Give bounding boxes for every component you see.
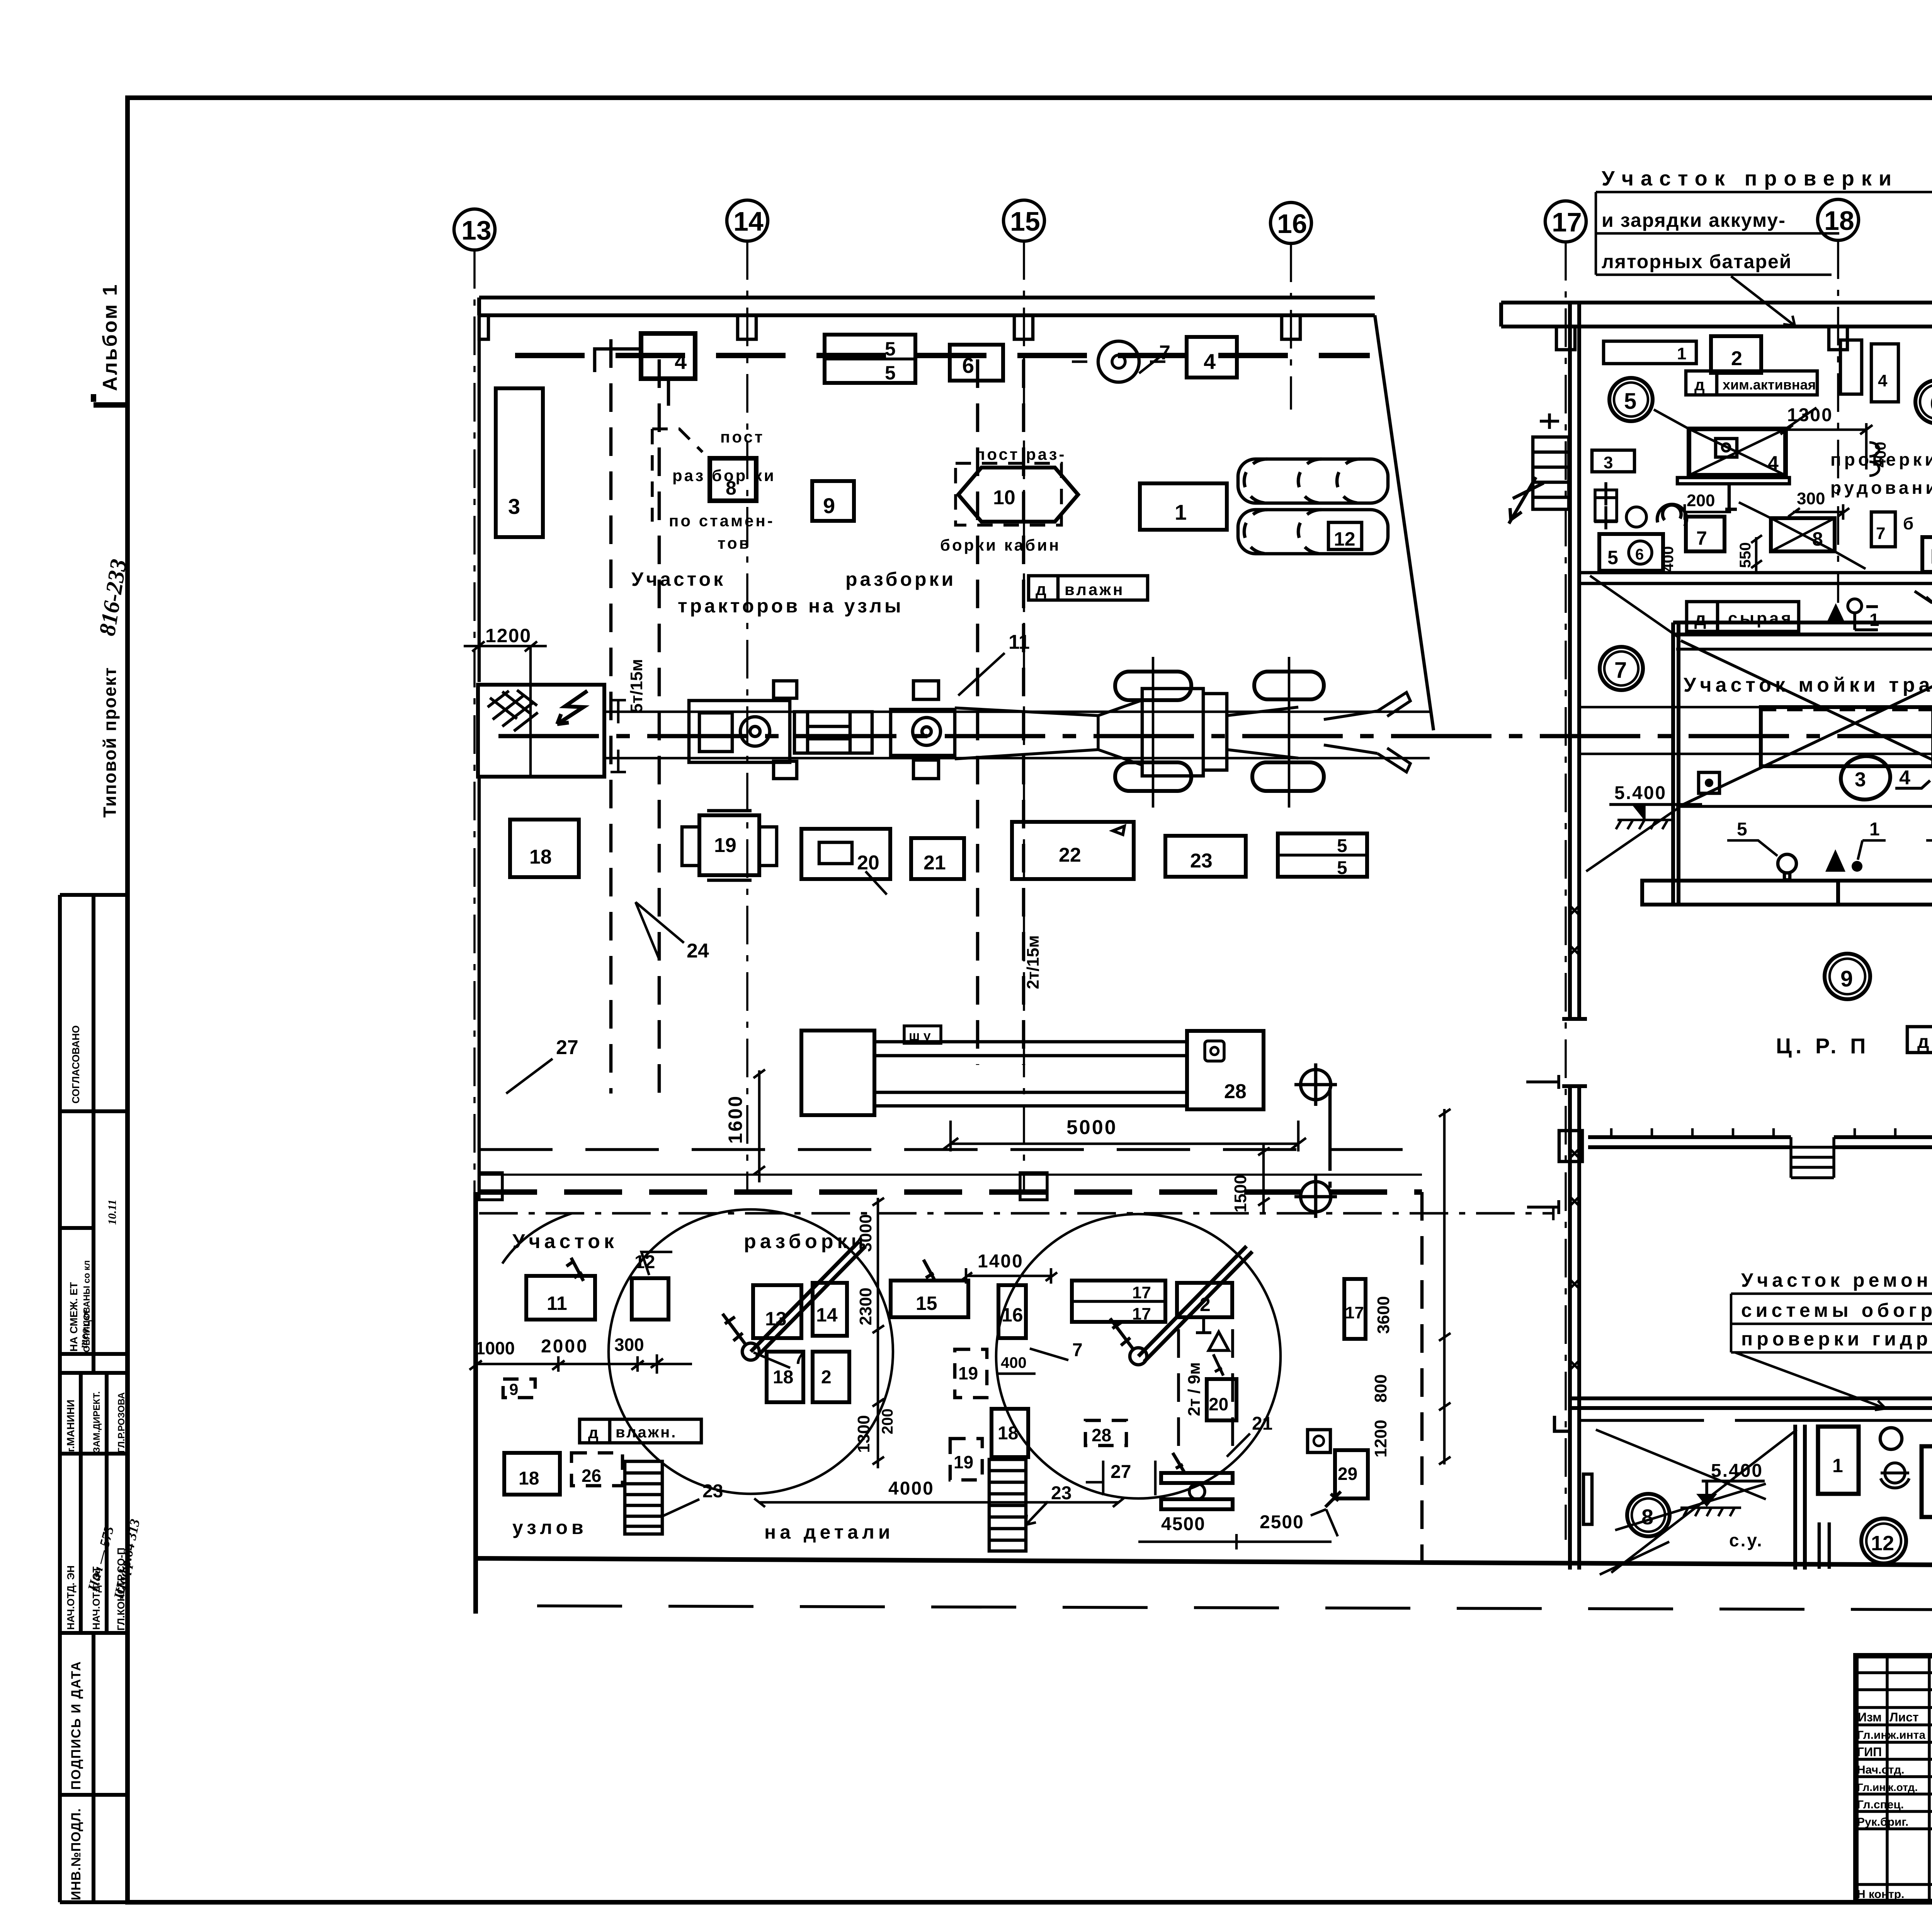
- central triangle: [1825, 849, 1845, 872]
- svg-text:ляторных батарей: ляторных батарей: [1602, 251, 1792, 272]
- hall top dashed partition: [515, 353, 1370, 358]
- svg-text:7: 7: [1696, 527, 1707, 549]
- svg-text:24: 24: [687, 940, 709, 962]
- dim 1200 vertical ref line: [529, 646, 532, 777]
- svg-text:13: 13: [765, 1308, 787, 1330]
- svg-text:28: 28: [1092, 1425, 1111, 1445]
- svg-text:4: 4: [1204, 349, 1216, 374]
- svg-text:20: 20: [1209, 1394, 1228, 1414]
- drain box symbol: [1699, 772, 1719, 793]
- sidebar form table: [60, 895, 128, 1902]
- bench rails: [874, 1042, 1187, 1106]
- shelf box 1 top: [1604, 341, 1696, 364]
- Г/2 row wall: [1579, 573, 1932, 583]
- equipment box 2: [813, 1352, 849, 1402]
- tractor unit 1 frame: [689, 681, 797, 779]
- svg-text:5: 5: [885, 362, 896, 384]
- room number 12 circle: [1861, 1519, 1906, 1563]
- svg-text:5: 5: [1737, 819, 1747, 840]
- svg-text:ГИП: ГИП: [1857, 1745, 1882, 1759]
- equipment box 14: [813, 1283, 847, 1336]
- svg-text:2: 2: [821, 1367, 832, 1388]
- equipment box 4 right: [1187, 337, 1237, 378]
- ladder rack 23 left: [625, 1461, 662, 1534]
- svg-text:5.400: 5.400: [1614, 783, 1667, 803]
- left hall top wall (double): [479, 298, 1375, 315]
- black triangle marker: [1826, 603, 1845, 624]
- svg-text:г.МАНИНИ: г.МАНИНИ: [65, 1400, 77, 1452]
- svg-text:1: 1: [1175, 500, 1187, 524]
- svg-text:ПОДПИСЬ И ДАТА: ПОДПИСЬ И ДАТА: [69, 1661, 83, 1790]
- column marks under top wall: [479, 315, 488, 339]
- trailer outlines 12: [1238, 459, 1388, 554]
- jib crane left: [742, 1343, 759, 1360]
- svg-text:18: 18: [529, 846, 552, 868]
- svg-text:18: 18: [773, 1367, 793, 1388]
- svg-text:3: 3: [508, 494, 520, 519]
- crane runway rails 2t: [978, 359, 1024, 1065]
- svg-text:27: 27: [556, 1036, 578, 1059]
- svg-text:5: 5: [1337, 836, 1347, 856]
- main conveyor centerline: [498, 734, 1932, 738]
- equipment box 16: [998, 1285, 1026, 1338]
- svg-text:800: 800: [1371, 1374, 1390, 1403]
- svg-text:9: 9: [823, 493, 835, 518]
- label Д ВЛАЖНАЯ: [1907, 1027, 1932, 1053]
- washing room top wall: [1673, 622, 1932, 634]
- svg-text:15: 15: [1010, 206, 1040, 236]
- right bench cabinet 28: [1187, 1031, 1264, 1109]
- dashed box 26: [571, 1453, 622, 1486]
- equipment box 9: [812, 481, 854, 521]
- svg-text:7: 7: [1159, 342, 1170, 364]
- warning triangle: [1209, 1332, 1229, 1350]
- svg-text:тракторов на узлы: тракторов на узлы: [678, 595, 904, 617]
- svg-text:Нач — 573: Нач — 573: [85, 1524, 117, 1593]
- bottom-left section left wall: [473, 1192, 478, 1614]
- svg-text:300: 300: [614, 1335, 644, 1355]
- equipment box 18 mid: [992, 1409, 1028, 1457]
- equipment box 6: [950, 345, 1003, 381]
- big charging table 4: [1689, 429, 1786, 475]
- svg-text:узлов: узлов: [512, 1517, 587, 1538]
- box 1: [1818, 1427, 1859, 1494]
- equipment box 1: [1140, 483, 1227, 530]
- svg-text:с.у.: с.у.: [1729, 1530, 1764, 1550]
- svg-text:Участок: Участок: [512, 1230, 618, 1253]
- svg-text:29: 29: [1338, 1464, 1357, 1484]
- tall box 1 right: [1840, 340, 1862, 394]
- equipment box 13: [753, 1285, 801, 1338]
- svg-text:4500: 4500: [1161, 1514, 1206, 1534]
- svg-text:и зарядки аккуму-: и зарядки аккуму-: [1602, 209, 1786, 231]
- door diagonals: [1596, 1430, 1797, 1575]
- svg-text:2т/15м: 2т/15м: [1024, 935, 1043, 989]
- svg-text:5000: 5000: [1066, 1116, 1117, 1139]
- svg-text:влажн: влажн: [1065, 580, 1124, 599]
- washing room left wall: [1673, 622, 1679, 905]
- dashed enclosure of post 8: [652, 429, 702, 522]
- equipment box 18: [767, 1352, 803, 1402]
- building bottom wall: [476, 1558, 1932, 1566]
- crane reach circle right: [996, 1214, 1281, 1498]
- dashed box 9: [503, 1379, 535, 1398]
- svg-text:Нач.отд.: Нач.отд.: [1857, 1764, 1905, 1776]
- platform bars right: [1161, 1473, 1233, 1509]
- svg-text:проверки гидросистем: проверки гидросистем: [1741, 1328, 1932, 1350]
- svg-text:на детали: на детали: [764, 1521, 894, 1543]
- svg-text:влажн.: влажн.: [616, 1424, 677, 1441]
- svg-text:15: 15: [916, 1293, 937, 1314]
- svg-text:системы обогрева и: системы обогрева и: [1741, 1299, 1932, 1321]
- equipment box 19 with side tables: [699, 815, 759, 875]
- box 7: [1686, 517, 1725, 551]
- left hall bottom dashed boundary: [479, 1189, 1422, 1195]
- svg-text:11: 11: [1009, 631, 1030, 653]
- svg-text:2т / 9м: 2т / 9м: [1185, 1362, 1204, 1416]
- svg-text:Лист: Лист: [1889, 1710, 1919, 1724]
- svg-text:5: 5: [885, 338, 896, 360]
- svg-text:13: 13: [461, 215, 492, 245]
- equipment box 11: [526, 1276, 595, 1320]
- telpher shelf stack left of wall: [1533, 437, 1569, 509]
- svg-text:5.400: 5.400: [1711, 1461, 1763, 1481]
- right building left wall (double): [1562, 303, 1587, 1570]
- svg-text:400: 400: [1660, 546, 1677, 572]
- left hall left wall: [478, 298, 481, 1192]
- svg-text:1: 1: [1869, 819, 1880, 840]
- level flag symbol 1: [1848, 599, 1862, 613]
- dashed box 28: [1085, 1420, 1126, 1446]
- svg-text:3600: 3600: [1374, 1296, 1393, 1334]
- tractor drawbar taper: [955, 700, 1142, 765]
- equipment box 22: [1012, 822, 1134, 879]
- wall stub left: [1583, 1474, 1592, 1524]
- column axis 14: [727, 200, 768, 241]
- svg-text:6: 6: [1635, 546, 1644, 563]
- svg-text:300: 300: [1797, 489, 1825, 508]
- svg-text:8: 8: [1812, 528, 1823, 550]
- svg-text:2300: 2300: [856, 1287, 875, 1325]
- svg-text:2000: 2000: [541, 1336, 588, 1357]
- bottom platform: [1642, 881, 1932, 905]
- svg-text:д: д: [1694, 609, 1706, 629]
- title block outer box: [1856, 1656, 1932, 1901]
- label Д ВЛАЖН.: [580, 1419, 701, 1443]
- svg-text:1500: 1500: [1231, 1175, 1250, 1213]
- label Д СЫРАЯ: [1687, 602, 1799, 631]
- svg-text:1000: 1000: [475, 1338, 515, 1358]
- svg-text:17: 17: [1132, 1304, 1151, 1323]
- post 10 dashed cabin stand: [956, 463, 1061, 525]
- svg-text:200: 200: [879, 1408, 896, 1434]
- svg-text:12: 12: [1334, 528, 1355, 550]
- equipment box 5/5 double: [825, 335, 915, 383]
- room number 7 circle: [1600, 647, 1643, 690]
- svg-text:1200: 1200: [485, 625, 531, 646]
- column axis 15: [1003, 200, 1044, 241]
- bench row: left cabinet: [801, 1031, 874, 1115]
- svg-text:1: 1: [1869, 610, 1879, 630]
- diagonal right edge of hall: [1375, 315, 1434, 730]
- svg-text:18: 18: [1824, 206, 1854, 236]
- svg-text:2: 2: [1200, 1294, 1211, 1315]
- door openings in partition: [1819, 1522, 1829, 1569]
- small square on dash line: [1020, 1173, 1047, 1200]
- svg-text:ЗАМ.ДИРЕКТ.: ЗАМ.ДИРЕКТ.: [92, 1391, 102, 1453]
- room partition vertical: [1795, 1425, 1805, 1570]
- svg-text:1300: 1300: [854, 1415, 873, 1453]
- svg-text:6: 6: [1930, 391, 1932, 416]
- title block inner lines: [1856, 1656, 1932, 1901]
- tractor unit 2 gearbox: [794, 712, 872, 753]
- small circle: [1880, 1428, 1902, 1449]
- svg-text:21: 21: [1252, 1413, 1272, 1434]
- svg-text:1600: 1600: [724, 1095, 746, 1144]
- svg-text:Рук.бриг.: Рук.бриг.: [1857, 1816, 1908, 1828]
- svg-text:28: 28: [1224, 1080, 1247, 1103]
- dashed box 19: [955, 1349, 987, 1398]
- svg-text:9: 9: [1840, 966, 1853, 992]
- svg-text:хим.активная: хим.активная: [1723, 377, 1816, 393]
- svg-text:18: 18: [998, 1423, 1018, 1444]
- box with dot symbol: [1308, 1430, 1330, 1452]
- svg-text:ИНВ.№ПОДЛ.: ИНВ.№ПОДЛ.: [69, 1808, 83, 1900]
- svg-text:14: 14: [733, 206, 764, 236]
- svg-text:Типовой проект: Типовой проект: [100, 667, 120, 818]
- svg-text:4000: 4000: [888, 1478, 934, 1499]
- svg-text:19: 19: [714, 834, 736, 857]
- equipment box 2 top: [1177, 1283, 1232, 1317]
- tractor big wheels: [1115, 672, 1324, 791]
- column axis 17: [1545, 201, 1586, 242]
- svg-text:27: 27: [1111, 1462, 1131, 1482]
- columns under Д wall: [1556, 327, 1575, 350]
- door swing diagonals: [1586, 576, 1932, 873]
- svg-text:Гл.спец.: Гл.спец.: [1857, 1798, 1904, 1811]
- axis line below hall: [479, 1206, 1553, 1220]
- room number 8 circle: [1627, 1494, 1670, 1536]
- crosshatch patch: [488, 690, 538, 731]
- equipment box 29: [1335, 1450, 1368, 1498]
- rail end ticks: [611, 700, 626, 772]
- svg-text:22: 22: [1059, 844, 1081, 866]
- stairs at Г wall: [1791, 1137, 1834, 1178]
- equipment box 20: [801, 829, 890, 879]
- svg-text:раз бор ки: раз бор ки: [672, 466, 776, 485]
- svg-text:рудования: рудования: [1830, 478, 1932, 498]
- floor washer symbol 7: [1098, 341, 1139, 382]
- svg-text:10.11: 10.11: [106, 1199, 119, 1225]
- svg-text:сырая: сырая: [1728, 609, 1793, 628]
- svg-text:9: 9: [509, 1380, 518, 1398]
- svg-text:4: 4: [1899, 767, 1910, 789]
- svg-text:д: д: [1036, 580, 1046, 599]
- Г row corner columns: [1559, 1121, 1932, 1171]
- box 4 right column: [1871, 344, 1898, 402]
- conveyor rails left hall: [603, 712, 1430, 758]
- svg-text:пост раз-: пост раз-: [975, 445, 1066, 463]
- shu box: [904, 1026, 941, 1043]
- svg-text:11: 11: [547, 1293, 567, 1314]
- equipment box 12: [632, 1278, 668, 1320]
- svg-text:5: 5: [1624, 389, 1636, 414]
- svg-text:4: 4: [675, 349, 687, 374]
- album mark tick: [94, 394, 128, 405]
- svg-text:23: 23: [1190, 850, 1213, 872]
- svg-text:8: 8: [1641, 1505, 1653, 1529]
- left jog wall piece at B/2: [1554, 1408, 1570, 1431]
- svg-text:2500: 2500: [1260, 1512, 1304, 1532]
- tractor axle crosses: [1153, 657, 1289, 808]
- svg-text:7: 7: [1876, 524, 1885, 543]
- svg-text:д: д: [588, 1423, 599, 1442]
- svg-text:6: 6: [962, 353, 974, 378]
- svg-text:4: 4: [1878, 371, 1888, 390]
- box 5 with circle 6: [1599, 534, 1663, 571]
- svg-text:23: 23: [1051, 1483, 1071, 1503]
- equipment box 20: [1207, 1379, 1236, 1420]
- svg-text:по стамен-: по стамен-: [669, 512, 775, 530]
- box 2: [1922, 1446, 1932, 1517]
- tractor rear fork: [1227, 692, 1410, 772]
- svg-text:д: д: [1694, 376, 1705, 394]
- B/2 corridor walls: [1570, 1398, 1932, 1408]
- equipment box 23: [1165, 836, 1246, 877]
- box 2 top: [1711, 336, 1761, 373]
- svg-text:1: 1: [1677, 344, 1686, 363]
- svg-text:17: 17: [1132, 1283, 1151, 1302]
- svg-text:20: 20: [857, 852, 879, 874]
- svg-text:10: 10: [993, 486, 1015, 509]
- svg-text:5: 5: [1607, 547, 1618, 568]
- faucet symbol: [1885, 1463, 1905, 1483]
- tractor K-700 body: [1142, 689, 1227, 776]
- svg-text:17: 17: [1345, 1303, 1364, 1322]
- hydrant symbols on riser line: [1294, 1063, 1337, 1218]
- lightning arrow in winch box: [557, 691, 587, 724]
- crane runway rails 5t: [611, 339, 659, 1094]
- room number 6 circle: [1915, 380, 1932, 423]
- svg-text:12: 12: [1871, 1532, 1894, 1555]
- B/2 row wall lower: [1579, 1419, 1932, 1422]
- svg-text:борки кабин: борки кабин: [940, 536, 1061, 554]
- x-marks on left wall: [1570, 905, 1580, 1370]
- room number 5 circle: [1609, 378, 1653, 421]
- svg-text:16: 16: [1002, 1304, 1023, 1326]
- electric winch hatched box: [478, 685, 604, 777]
- svg-text:5: 5: [1337, 858, 1347, 878]
- svg-text:3: 3: [1855, 769, 1866, 791]
- svg-text:200: 200: [1687, 491, 1715, 510]
- label Д ВЛАЖН: [1029, 576, 1148, 600]
- jib crane right: [1130, 1348, 1147, 1365]
- tall box 17 right: [1344, 1279, 1366, 1339]
- wash basin crossed: [1761, 707, 1932, 766]
- equipment box 21: [911, 838, 964, 879]
- svg-text:2: 2: [1731, 347, 1742, 370]
- svg-text:3000: 3000: [856, 1214, 875, 1252]
- svg-text:Изм: Изм: [1858, 1710, 1882, 1724]
- svg-text:б: б: [1903, 514, 1913, 533]
- svg-text:550: 550: [1737, 542, 1754, 568]
- svg-text:ГЛ.Р.РОЗОВА: ГЛ.Р.РОЗОВА: [116, 1392, 127, 1453]
- tall rack 3: [496, 388, 543, 537]
- box 7б right: [1871, 512, 1895, 547]
- svg-text:16: 16: [1277, 209, 1307, 239]
- svg-text:разборки: разборки: [744, 1230, 867, 1253]
- svg-text:7: 7: [1072, 1340, 1083, 1361]
- circled 3 pump: [1838, 753, 1893, 803]
- svg-text:21: 21: [923, 852, 946, 874]
- bottom-left section right dashed boundary: [1420, 1192, 1424, 1563]
- equipment box 18 bottom: [504, 1453, 560, 1495]
- svg-text:1400: 1400: [978, 1251, 1024, 1272]
- crane reach circle left: [609, 1209, 893, 1494]
- svg-text:Гл.инж.инта: Гл.инж.инта: [1857, 1729, 1925, 1742]
- svg-text:5т/15м: 5т/15м: [627, 659, 646, 713]
- svg-text:Н контр.: Н контр.: [1857, 1888, 1904, 1901]
- svg-text:Участок мойки тракторов: Участок мойки тракторов: [1684, 674, 1932, 696]
- svg-text:пост: пост: [720, 428, 764, 446]
- svg-text:Участок: Участок: [631, 568, 726, 590]
- svg-text:7: 7: [1614, 658, 1627, 683]
- svg-text:17: 17: [1552, 207, 1582, 237]
- svg-text:д: д: [1917, 1032, 1929, 1052]
- box 3 left: [1592, 450, 1634, 472]
- svg-text:1200: 1200: [1371, 1420, 1390, 1458]
- label Д ХИМ.АКТИВНАЯ: [1686, 371, 1817, 395]
- dashed box 19 lower: [950, 1439, 982, 1480]
- inner bottom line: [1676, 805, 1932, 808]
- svg-text:Участок проверки: Участок проверки: [1602, 167, 1898, 190]
- equipment box 18: [510, 820, 579, 877]
- svg-text:26: 26: [582, 1466, 601, 1486]
- conveyor rails right part: [1579, 707, 1932, 756]
- room number 9 circle: [1825, 954, 1870, 999]
- small plus boxes: [1594, 482, 1617, 529]
- svg-text:тов: тов: [718, 534, 751, 552]
- svg-text:разборки: разборки: [845, 568, 956, 590]
- equipment box 15: [891, 1281, 968, 1317]
- svg-text:СОГЛАСОВАНО: СОГЛАСОВАНО: [70, 1026, 82, 1104]
- svg-text:18: 18: [519, 1468, 539, 1489]
- svg-text:НАЧ.ОТД. ЭН: НАЧ.ОТД. ЭН: [65, 1565, 77, 1630]
- right building top wall (row Д): [1501, 303, 1932, 327]
- svg-text:3: 3: [1604, 453, 1613, 472]
- box 8 crossed: [1771, 518, 1835, 551]
- small circle and half circle: [1626, 507, 1646, 527]
- svg-text:19: 19: [958, 1363, 978, 1383]
- post razborki 8 square: [710, 458, 756, 501]
- equipment box 4 left: [641, 333, 695, 379]
- svg-text:14: 14: [816, 1304, 838, 1326]
- double box 17/17: [1072, 1281, 1165, 1322]
- bottom outside dashed line: [537, 1606, 1932, 1611]
- svg-text:1: 1: [1832, 1455, 1843, 1476]
- door leader lines left wall: [1526, 1075, 1559, 1214]
- bench under table: [1677, 478, 1789, 509]
- svg-text:ш у: ш у: [909, 1029, 931, 1043]
- column axis 13: [454, 209, 495, 250]
- equipment box 5/5 right: [1278, 833, 1367, 877]
- inner top line: [1676, 648, 1932, 651]
- svg-text:Участок ремонта узлов: Участок ремонта узлов: [1741, 1269, 1932, 1291]
- column axis 18: [1818, 199, 1859, 240]
- svg-text:23: 23: [702, 1481, 723, 1502]
- svg-text:Гл.инж.отд.: Гл.инж.отд.: [1857, 1781, 1918, 1793]
- svg-text:ОБЛИЦОВАНЫ со кл: ОБЛИЦОВАНЫ со кл: [82, 1260, 92, 1352]
